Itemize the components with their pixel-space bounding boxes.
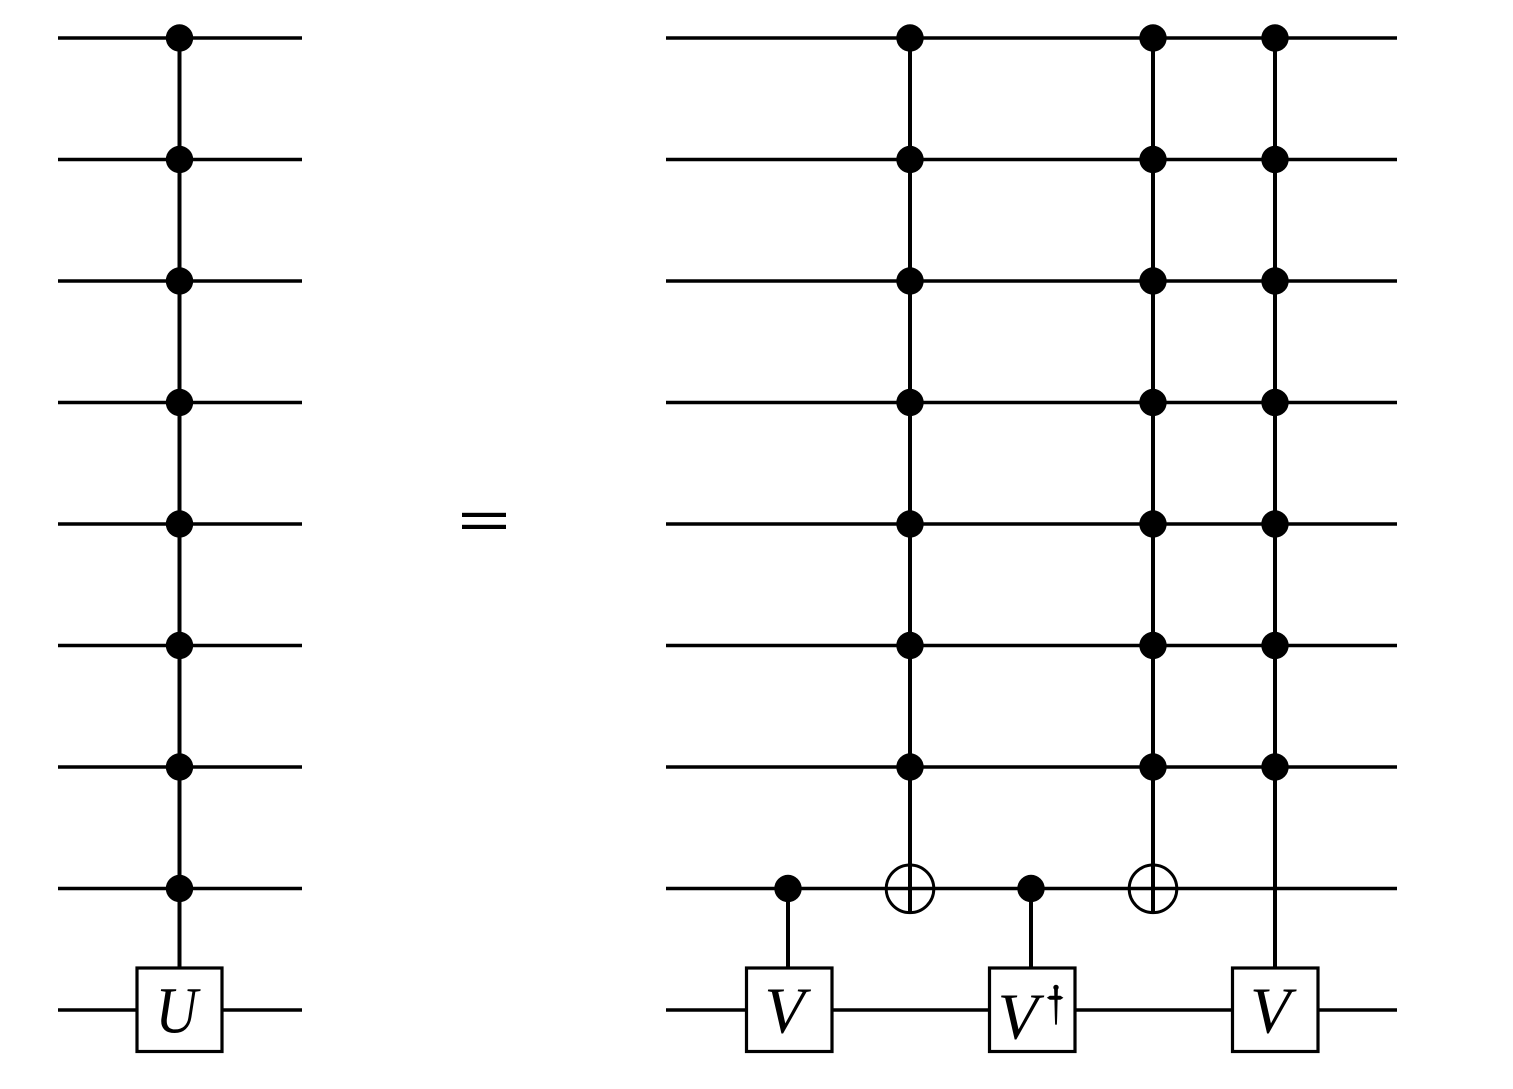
- control dot left q6: [166, 632, 193, 659]
- control dot left q7: [166, 753, 193, 780]
- control dot q3 column 2: [896, 267, 923, 294]
- svg-text:V: V: [1250, 975, 1297, 1048]
- control dot left q8: [166, 875, 193, 902]
- control dot left q4: [166, 389, 193, 416]
- gate box V (first): [747, 968, 833, 1052]
- wire: vertical link control q8 to V-dagger (column 3): [1029, 889, 1033, 969]
- wire L2: [58, 158, 302, 162]
- wire R7: [666, 765, 1397, 769]
- control dot q2 column 5: [1261, 146, 1288, 173]
- control dot q2 column 4: [1139, 146, 1166, 173]
- gate box V-dagger: [990, 968, 1076, 1054]
- X target (oplus) on q8 column 2: [886, 865, 934, 913]
- wire: left vertical control line: [178, 38, 182, 968]
- wire L9 (left target wire): [58, 1008, 302, 1012]
- wire: vertical control line column 4 (CNOT): [1151, 38, 1155, 914]
- control dot q7 column 4: [1139, 753, 1166, 780]
- wire R5: [666, 522, 1397, 526]
- svg-text:U: U: [156, 975, 202, 1048]
- wire R6: [666, 644, 1397, 648]
- wire L4: [58, 401, 302, 405]
- control dot q1 column 5: [1261, 24, 1288, 51]
- control dot q8 column 3: [1017, 875, 1044, 902]
- X target (oplus) on q8 column 4: [1129, 865, 1177, 913]
- control dot q2 column 2: [896, 146, 923, 173]
- wire: vertical control line column 2 (CNOT): [908, 38, 912, 914]
- wire R9 (right target wire): [666, 1008, 1397, 1012]
- control dot left q2: [166, 146, 193, 173]
- control dot q8 column 1: [774, 875, 801, 902]
- control dot q3 column 4: [1139, 267, 1166, 294]
- gate box V (last): [1233, 968, 1319, 1052]
- control dot q4 column 2: [896, 389, 923, 416]
- wire: vertical control line column 5 (to last V): [1273, 38, 1277, 968]
- control dot q5 column 4: [1139, 510, 1166, 537]
- wire L5: [58, 522, 302, 526]
- svg-text:V: V: [998, 981, 1045, 1054]
- control dot left q1: [166, 24, 193, 51]
- control dot q3 column 5: [1261, 267, 1288, 294]
- wire: vertical link control q8 to V (column 1): [786, 889, 790, 969]
- control dot q6 column 4: [1139, 632, 1166, 659]
- control dot q4 column 5: [1261, 389, 1288, 416]
- wire R1 (right circuit qubit 1): [666, 36, 1397, 40]
- control dot q1 column 2: [896, 24, 923, 51]
- control dot q5 column 2: [896, 510, 923, 537]
- dagger superscript of V-dagger: [1047, 985, 1064, 1025]
- wire L3: [58, 279, 302, 283]
- wire R2: [666, 158, 1397, 162]
- wire R3: [666, 279, 1397, 283]
- wire R4: [666, 401, 1397, 405]
- control dot left q5: [166, 510, 193, 537]
- wire L1 (left circuit qubit 1): [58, 36, 302, 40]
- control dot q4 column 4: [1139, 389, 1166, 416]
- control dot left q3: [166, 267, 193, 294]
- wire L8: [58, 887, 302, 891]
- control dot q6 column 2: [896, 632, 923, 659]
- control dot q6 column 5: [1261, 632, 1288, 659]
- control dot q7 column 2: [896, 753, 923, 780]
- control dot q1 column 4: [1139, 24, 1166, 51]
- wire L6: [58, 644, 302, 648]
- control dot q5 column 5: [1261, 510, 1288, 537]
- control dot q7 column 5: [1261, 753, 1288, 780]
- gate box U: [137, 968, 222, 1052]
- wire L7: [58, 765, 302, 769]
- equals sign: [462, 513, 506, 529]
- svg-text:V: V: [764, 975, 811, 1048]
- wire R8: [666, 887, 1397, 891]
